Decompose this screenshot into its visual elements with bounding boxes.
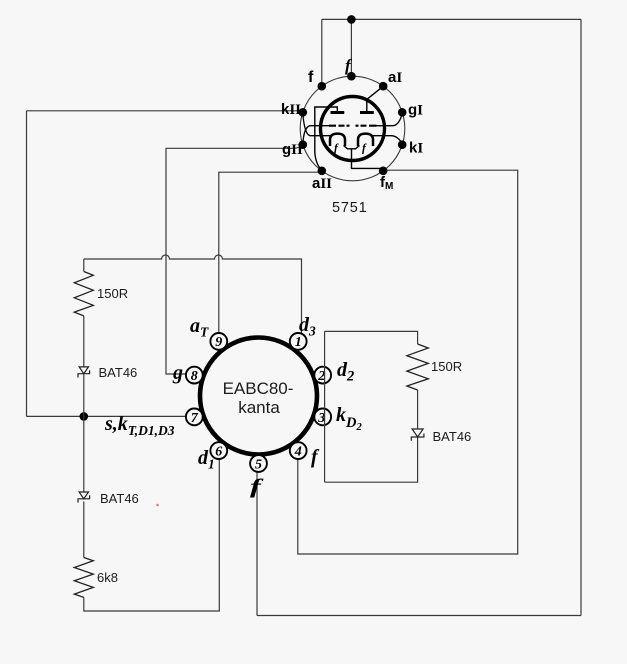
- grid I dashes: [356, 125, 377, 127]
- wire aII to pin9: [219, 171, 322, 333]
- tube pin dot aI: [379, 82, 388, 91]
- wire bottom rail: [257, 615, 581, 617]
- svg-text:BAT46: BAT46: [99, 365, 138, 380]
- pin 3: [314, 409, 331, 426]
- resistor R3 150R right: [407, 344, 428, 390]
- pin 8: [186, 367, 203, 384]
- wire left rail: [26, 111, 28, 417]
- pin 2: [314, 367, 331, 384]
- heater common to fM: [344, 146, 384, 171]
- grid II dashes: [329, 125, 350, 127]
- resistor R2 6k8: [74, 558, 93, 598]
- pin 1: [290, 333, 307, 350]
- svg-text:1: 1: [295, 335, 302, 350]
- svg-text:aII: aII: [312, 175, 332, 192]
- cathode I arc: [358, 134, 373, 146]
- tube pin dot kI: [398, 140, 407, 149]
- pin 5: [250, 455, 267, 472]
- wire right loop bottom: [325, 437, 418, 482]
- tube outer socket circle: [300, 76, 405, 181]
- wire right rail: [580, 19, 582, 615]
- tube pin dot aII: [318, 167, 327, 176]
- tube inner envelope circle: [321, 97, 385, 161]
- wire pin5 drop: [256, 472, 258, 616]
- tube pin dot kII: [299, 108, 308, 117]
- wire fM to pin4: [298, 170, 518, 554]
- wire right 150R to diode: [417, 390, 419, 429]
- svg-text:gI: gI: [408, 102, 423, 119]
- svg-text:f: f: [308, 69, 314, 86]
- resistor R1 150R left: [74, 272, 93, 316]
- svg-text:150R: 150R: [97, 286, 128, 301]
- grid II lead to gII pin: [303, 126, 329, 144]
- anode II plate: [315, 107, 344, 170]
- svg-text:BAT46: BAT46: [100, 491, 139, 506]
- svg-text:6: 6: [215, 445, 222, 460]
- tube pin dot f left: [318, 82, 327, 91]
- wire left diode to junction and down: [83, 375, 85, 492]
- socket main circle: [200, 338, 317, 455]
- svg-text:g: g: [172, 362, 183, 384]
- svg-text:BAT46: BAT46: [433, 429, 472, 444]
- tube 5751 assembly: [281, 56, 423, 216]
- svg-text:EABC80-: EABC80-: [223, 379, 294, 398]
- svg-text:7: 7: [191, 411, 199, 426]
- cathode II arc: [330, 134, 345, 146]
- diode V3 BAT46 right: [412, 429, 423, 437]
- grid I lead to gI pin: [377, 114, 402, 126]
- diode V1 BAT46 left: [79, 367, 88, 374]
- svg-text:aI: aI: [388, 69, 402, 86]
- wire top heater rail: [322, 18, 581, 20]
- wire left 150R to diode: [83, 316, 85, 367]
- red speck artifact: [156, 504, 159, 507]
- wire right loop top: [325, 331, 418, 344]
- cathode II lead to kII pin: [303, 114, 331, 136]
- wire f-top drop: [350, 19, 352, 76]
- tube pin dot f top: [347, 72, 356, 81]
- pin 6: [210, 442, 227, 459]
- pin 9: [210, 333, 227, 350]
- anode I plate: [367, 86, 383, 112]
- wire f-left drop: [321, 19, 323, 86]
- pin 7: [186, 409, 203, 426]
- tube pin dot gII: [299, 140, 308, 149]
- svg-text:kanta: kanta: [238, 398, 280, 417]
- tube pin dot gI: [398, 108, 407, 117]
- svg-text:8: 8: [191, 369, 198, 384]
- EABC80 socket assembly: [104, 314, 362, 498]
- wire gII to pin8: [166, 146, 303, 375]
- wire kII rail: [27, 110, 303, 112]
- svg-text:5: 5: [255, 458, 262, 473]
- svg-text:kII: kII: [281, 101, 301, 118]
- svg-text:5751: 5751: [332, 200, 367, 216]
- wire node A horizontal with hops to pin1: [84, 255, 302, 333]
- svg-text:6k8: 6k8: [97, 570, 118, 585]
- wire pin7 feed: [27, 415, 187, 417]
- wire pin6 drop: [84, 459, 220, 611]
- pin 4: [290, 442, 307, 459]
- svg-text:gII: gII: [282, 141, 303, 158]
- wire pins 2-3 strap over circles: [324, 331, 326, 482]
- diode V2 BAT46 lower: [79, 492, 88, 499]
- wire lower diode to 6k8: [83, 502, 85, 558]
- junction top rail: [347, 15, 356, 24]
- svg-text:kI: kI: [409, 140, 423, 157]
- junction left branch: [80, 412, 89, 421]
- svg-text:9: 9: [215, 335, 222, 350]
- tube pin dot fM: [379, 167, 388, 176]
- svg-text:150R: 150R: [431, 359, 462, 374]
- svg-text:4: 4: [294, 445, 302, 460]
- cathode I lead to kI pin: [373, 136, 402, 144]
